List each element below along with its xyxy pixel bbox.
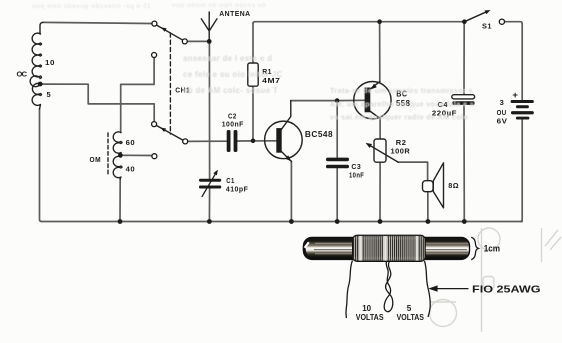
arrow Q1 emitter — [285, 155, 291, 161]
winding lead middle twisted — [384, 261, 393, 312]
svg-text:OC: OC — [17, 70, 28, 79]
wire R1 bottom — [252, 86, 254, 141]
svg-text:10: 10 — [362, 304, 371, 313]
arrowheads — [160, 10, 490, 175]
capacitor C2 plates — [227, 130, 238, 152]
wire C4 top — [463, 22, 465, 95]
switch contact circles — [152, 19, 505, 159]
transistor Q1 emitter lead — [282, 152, 292, 162]
svg-text:VOLTAS: VOLTAS — [397, 313, 425, 322]
node Q1 collector / C3 — [335, 98, 340, 103]
wire Q1 collector to node — [291, 100, 337, 102]
coil L2 OM lower loops — [113, 156, 122, 180]
coil L1 OC upper loops — [30, 33, 41, 87]
wire Q2 emitter up — [379, 22, 381, 82]
svg-text:1cm: 1cm — [484, 244, 500, 255]
transistor Q1 base bar — [276, 128, 281, 153]
arrow FIO — [428, 285, 468, 291]
wire CH1 pole2 to C2 — [188, 140, 227, 142]
transistor Q2 collector lead — [370, 111, 380, 119]
arrow C1 head — [213, 170, 218, 176]
svg-text:40: 40 — [126, 164, 136, 173]
ghost circuit bottom right — [430, 228, 562, 332]
svg-text:8Ω: 8Ω — [448, 181, 459, 190]
switch S1 lever — [464, 11, 487, 21]
wire battery bottom — [520, 120, 522, 222]
contact CH1 b1 — [152, 53, 157, 58]
coil winding on rod — [353, 235, 426, 261]
coil L1 OC lower loops — [32, 83, 41, 109]
battery B1 plates — [511, 100, 534, 120]
arrow R2 wiper head — [366, 143, 372, 148]
switch CH1 pole2 lever — [157, 126, 183, 141]
node OC tap5 — [38, 82, 43, 87]
ferrite rod body — [303, 237, 470, 259]
wire top rail — [253, 22, 464, 24]
svg-text:anseeaar de l este e d: anseeaar de l este e d — [183, 54, 272, 63]
wire S1 to corner — [504, 22, 522, 100]
speaker cone — [433, 163, 443, 208]
transistor Q2 base bar — [365, 88, 371, 113]
wire antenna stub below C1 — [208, 189, 210, 222]
transistor Q1 BC548 circle — [265, 121, 303, 159]
coil L1 OC top corner — [40, 22, 43, 34]
wire R1 top — [252, 24, 254, 63]
switch CH1 pole1 lever — [157, 25, 183, 40]
node top rail Q2 — [377, 19, 382, 24]
wire C4 bottom — [463, 105, 465, 222]
resistor R2 body — [374, 139, 386, 162]
arrow CH1 pole2 — [160, 128, 166, 133]
core dashed OM — [107, 133, 109, 176]
svg-text:ce fele e su oio leitor JC: ce fele e su oio leitor JC — [183, 70, 283, 79]
wire antenna down to C1 — [208, 44, 210, 179]
wire C3 top — [336, 101, 338, 158]
wire base node to Q2 — [337, 99, 365, 101]
svg-text:auq sisb sbesug obssetni -sq: auq sisb sbesug obssetni -sq e-31 — [32, 3, 151, 10]
wire R2 bottom — [379, 162, 381, 221]
wire OM tap to CH1 lower — [123, 154, 152, 156]
arrow S1 — [485, 10, 491, 14]
capacitor C4 top plate — [452, 95, 475, 99]
capacitor C1 trimmer arrow — [202, 171, 217, 197]
transistor Q1 collector lead — [282, 101, 291, 130]
contact CH1 pole1 — [182, 39, 187, 44]
wire C2 to base node — [237, 140, 276, 142]
wire wiper to speaker — [398, 162, 428, 181]
svg-text:10nF: 10nF — [349, 170, 364, 179]
svg-text:100R: 100R — [391, 146, 411, 155]
antenna — [201, 12, 217, 41]
node rail OM — [118, 219, 123, 224]
contact CH1 pole2 — [183, 139, 188, 144]
svg-text:3: 3 — [500, 98, 505, 107]
main schematic lines group — [40, 22, 523, 222]
winding lead left — [346, 261, 353, 319]
node rail R2 — [378, 219, 383, 224]
contact CH1 b2 — [152, 154, 157, 159]
node R1-C2-base — [251, 139, 256, 144]
wire Q2 collector down — [379, 119, 381, 140]
svg-text:eb de AM colc- sdsue T: eb de AM colc- sdsue T — [183, 86, 278, 95]
wire top-left (OC top to CH1 contact) — [43, 22, 152, 23]
contact CH1 a2 — [152, 122, 157, 127]
svg-text:S1: S1 — [482, 21, 492, 30]
transistor Q2 emitter lead — [370, 82, 380, 90]
resistor R1 body — [248, 63, 258, 86]
svg-text:ANTENA: ANTENA — [219, 9, 250, 18]
winding lead right — [424, 261, 430, 317]
svg-text:BC548: BC548 — [305, 129, 333, 139]
svg-text:60: 60 — [126, 138, 136, 147]
node rail Q1e — [289, 219, 294, 224]
rod left cap — [303, 238, 314, 260]
svg-text:Trata-se de um simples tra: Trata-se de um simples transmissor s — [330, 86, 473, 95]
node rail speaker — [426, 219, 431, 224]
wire bottom rail — [42, 221, 523, 223]
coil L2 OM upper loops — [113, 132, 122, 155]
arrow Q2 emitter — [371, 84, 377, 90]
svg-text:5: 5 — [47, 90, 52, 99]
svg-text:5: 5 — [407, 304, 412, 313]
ghost text right block — [330, 86, 474, 122]
capacitor C4 bottom plate — [452, 101, 474, 105]
node rail C3 — [335, 219, 340, 224]
node antenna junction — [207, 39, 212, 44]
wire left vertical — [40, 109, 42, 222]
svg-text:6V: 6V — [497, 116, 508, 125]
node OM tap — [118, 153, 123, 158]
svg-text:OM: OM — [90, 155, 102, 164]
wire CH1 pole1 to antenna node — [187, 40, 209, 42]
svg-text:vs sai em qualquer radio: vs sai em qualquer radio de AM colo — [330, 113, 469, 122]
wire OC tap 5 to CH1 — [43, 84, 155, 122]
speaker driver box — [423, 181, 434, 192]
transistor Q2 BC558 circle — [354, 82, 391, 119]
wire speaker bottom — [427, 192, 429, 222]
wire OM bottom — [119, 179, 121, 222]
arrow CH1 pole1 — [161, 27, 167, 32]
capacitor C1 plates — [199, 179, 221, 189]
svg-text:100nF: 100nF — [222, 120, 244, 129]
svg-text:10: 10 — [45, 58, 55, 67]
svg-text:+: + — [512, 90, 518, 101]
wire Q1 emitter down — [290, 161, 292, 221]
node rail C1 — [207, 219, 212, 224]
contact S1 — [499, 19, 504, 24]
svg-text:eup obom eb oqit oqess ob: eup obom eb oqit oqess ob — [172, 2, 267, 9]
wire OM top to CH1 upper — [121, 58, 154, 133]
svg-text:FIO 25AWG: FIO 25AWG — [472, 283, 541, 295]
svg-text:VOLTAS: VOLTAS — [356, 313, 384, 322]
R2 wiper arm — [368, 145, 398, 163]
capacitor C3 plates — [326, 158, 349, 169]
brace 1cm — [471, 237, 478, 259]
node rail C4 — [462, 219, 467, 224]
wire C3 bottom — [336, 169, 338, 222]
svg-text:410pF: 410pF — [226, 184, 248, 193]
ghost text top strip — [32, 2, 267, 10]
ghost text mid block — [183, 54, 283, 95]
contact CH1 a1 — [152, 21, 157, 26]
node top rail C4 — [462, 19, 467, 24]
svg-text:AM, um aparelho em que vo: AM, um aparelho em que voce fala e s — [330, 100, 474, 109]
switch CH1 dashed link — [169, 33, 171, 134]
